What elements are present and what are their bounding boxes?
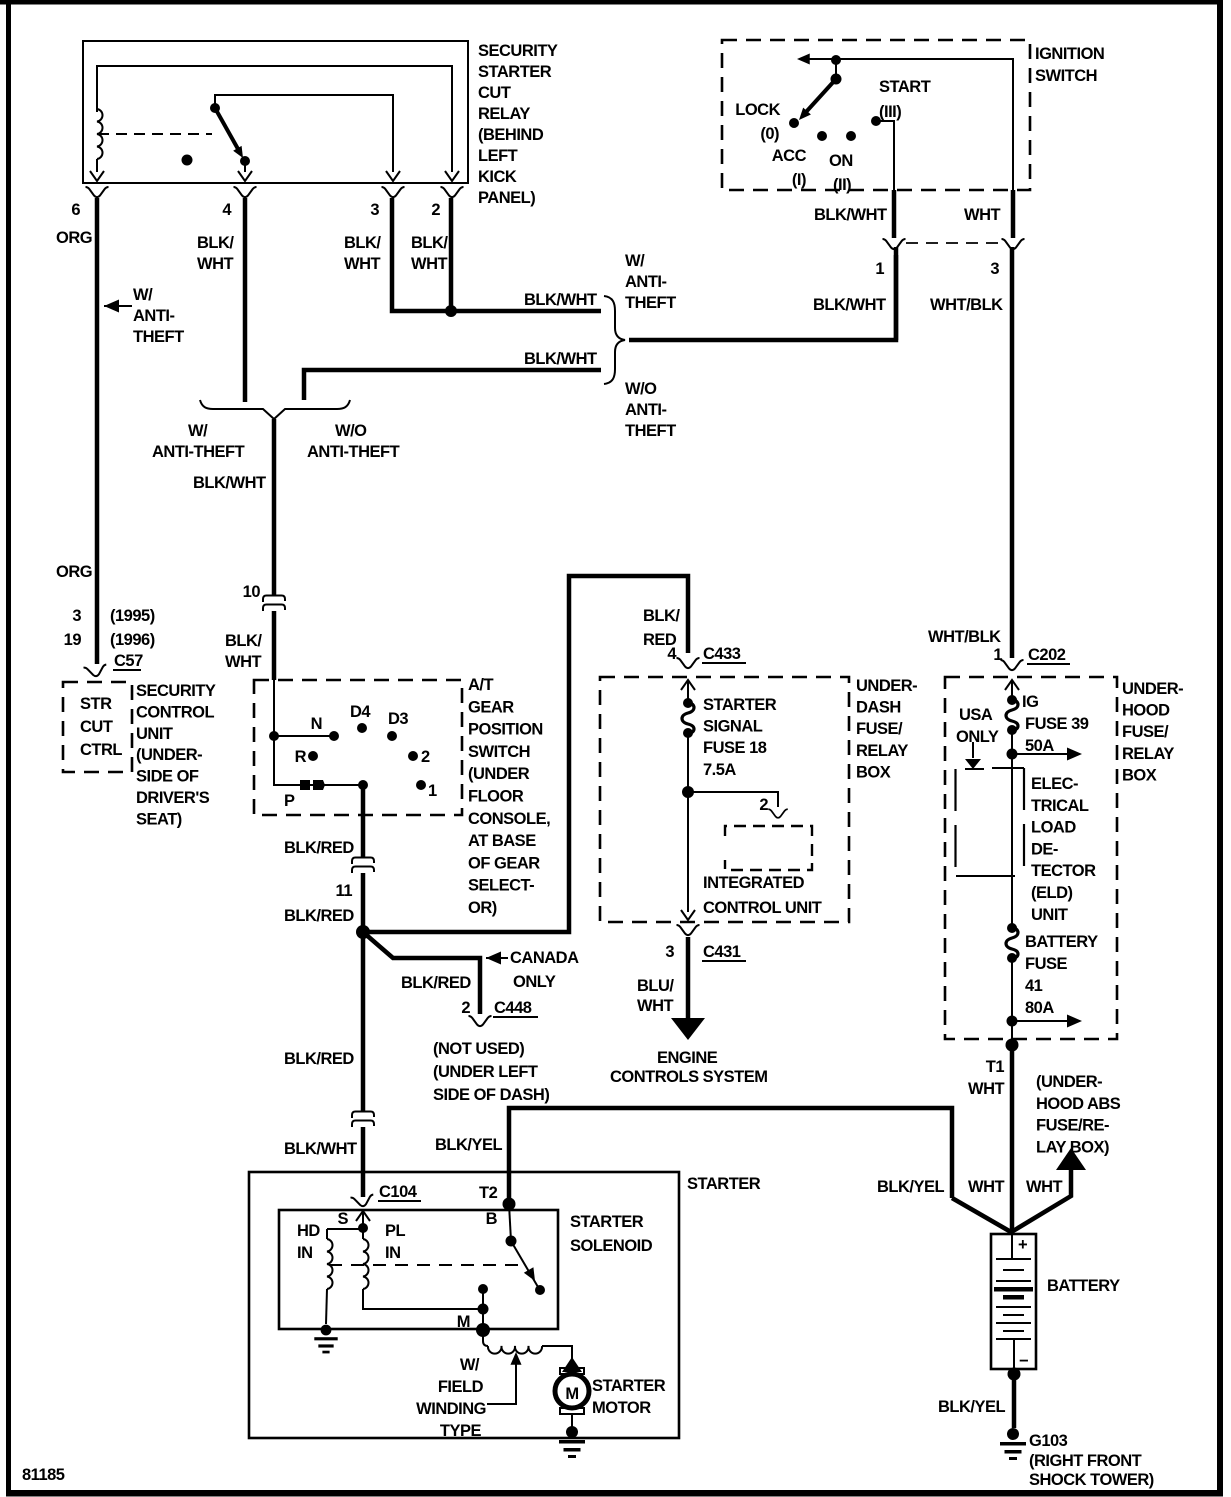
- svg-text:BLK/RED: BLK/RED: [284, 907, 354, 925]
- wire WHT T1 to battery: [1010, 1039, 1015, 1234]
- contact B dot: [506, 1236, 517, 1247]
- contact D4: [357, 723, 367, 733]
- svg-text:2: 2: [461, 999, 470, 1017]
- svg-text:BLK/WHT: BLK/WHT: [524, 291, 597, 309]
- junction dot fuse39 output: [1007, 749, 1018, 760]
- svg-text:WHT/BLK: WHT/BLK: [928, 628, 1001, 646]
- gear switch common wire: [274, 680, 363, 785]
- start output wire: [876, 121, 894, 192]
- solenoid dashed link: [329, 1264, 524, 1266]
- svg-text:G103: G103: [1029, 1432, 1068, 1450]
- svg-text:TYPE: TYPE: [440, 1422, 482, 1440]
- svg-text:(NOT USED): (NOT USED): [433, 1040, 524, 1058]
- svg-text:INTEGRATED: INTEGRATED: [703, 874, 805, 892]
- svg-text:UNDER-: UNDER-: [1122, 680, 1183, 698]
- svg-text:ACC: ACC: [772, 147, 807, 165]
- svg-text:BLK/RED: BLK/RED: [284, 839, 354, 857]
- svg-text:THEFT: THEFT: [625, 422, 676, 440]
- wire BLK/RED loop to C433: [363, 576, 688, 932]
- svg-text:BLK/: BLK/: [225, 632, 262, 650]
- svg-text:(0): (0): [760, 125, 779, 143]
- svg-text:TRICAL: TRICAL: [1031, 797, 1089, 815]
- svg-text:BLK/: BLK/: [197, 234, 234, 252]
- svg-text:C448: C448: [494, 999, 532, 1017]
- wire BLK/RED gear switch down: [361, 785, 366, 858]
- connector pin 2: [441, 187, 464, 197]
- connector pin 6: [86, 187, 109, 197]
- wire fuse41 to bottom: [1011, 958, 1013, 1039]
- svg-text:CUT: CUT: [80, 718, 113, 736]
- svg-text:D3: D3: [388, 710, 408, 728]
- svg-text:(ELD): (ELD): [1031, 884, 1073, 902]
- svg-text:ONLY: ONLY: [513, 973, 556, 991]
- svg-text:FUSE: FUSE: [1025, 955, 1068, 973]
- svg-text:WHT: WHT: [225, 653, 261, 671]
- svg-text:4: 4: [222, 201, 232, 219]
- svg-text:(1996): (1996): [110, 631, 155, 649]
- ignition switch box: [722, 40, 1030, 190]
- svg-text:ON: ON: [829, 152, 853, 170]
- wire WHT ignition below box: [1011, 190, 1016, 238]
- svg-text:(UNDER LEFT: (UNDER LEFT: [433, 1063, 538, 1081]
- wire BLK/WHT from brace to ignition pin1: [629, 255, 896, 340]
- svg-text:BLK/WHT: BLK/WHT: [193, 474, 266, 492]
- svg-text:BLK/RED: BLK/RED: [401, 974, 471, 992]
- contact ON: [846, 131, 856, 141]
- svg-text:FUSE 18: FUSE 18: [703, 739, 767, 757]
- ignition feed wire: [800, 59, 1013, 192]
- svg-text:(BEHIND: (BEHIND: [478, 126, 544, 144]
- contact START: [871, 116, 881, 126]
- svg-text:ORG: ORG: [56, 229, 92, 247]
- contact N: [329, 731, 339, 741]
- svg-text:DRIVER'S: DRIVER'S: [136, 789, 210, 807]
- svg-text:ENGINE: ENGINE: [657, 1049, 718, 1067]
- svg-text:6: 6: [71, 201, 80, 219]
- under-dash fuse relay box: [600, 677, 849, 922]
- ignition lever dot: [831, 74, 842, 85]
- svg-text:BLK/: BLK/: [411, 234, 448, 252]
- svg-text:SECURITY: SECURITY: [478, 42, 558, 60]
- connector 11: [352, 858, 374, 874]
- svg-text:THEFT: THEFT: [625, 294, 676, 312]
- svg-text:AT BASE: AT BASE: [468, 832, 536, 850]
- svg-text:7.5A: 7.5A: [703, 761, 736, 779]
- solenoid switch lever: [511, 1241, 538, 1287]
- junction dot BLK/RED: [356, 925, 370, 939]
- wire fuse39 to junction: [1011, 730, 1013, 767]
- ground G103: [1000, 1428, 1026, 1460]
- wire BLK/WHT to gear switch: [272, 611, 277, 680]
- svg-text:W/O: W/O: [335, 422, 367, 440]
- fuse 39 IG: [1006, 695, 1018, 735]
- svg-text:CONTROL UNIT: CONTROL UNIT: [703, 899, 822, 917]
- connector pin 3: [382, 187, 405, 197]
- usa only arrow: [972, 742, 974, 758]
- svg-text:41: 41: [1025, 977, 1043, 995]
- under-hood fuse relay box: [945, 677, 1117, 1039]
- svg-text:C433: C433: [703, 645, 741, 663]
- svg-text:B: B: [486, 1210, 498, 1228]
- svg-text:BLK/WHT: BLK/WHT: [813, 296, 886, 314]
- svg-text:SIGNAL: SIGNAL: [703, 718, 763, 736]
- svg-text:WINDING: WINDING: [416, 1400, 486, 1418]
- svg-text:FUSE/: FUSE/: [856, 720, 903, 738]
- arrow w/anti-theft: [104, 300, 119, 313]
- contact S dot: [358, 1223, 368, 1233]
- svg-text:STARTER: STARTER: [703, 696, 777, 714]
- svg-text:UNDER-: UNDER-: [856, 677, 917, 695]
- svg-text:BOX: BOX: [1122, 766, 1157, 784]
- svg-text:BLK/YEL: BLK/YEL: [435, 1136, 503, 1154]
- svg-text:81185: 81185: [22, 1466, 65, 1484]
- svg-text:3: 3: [665, 943, 674, 961]
- arrow feed right from fuse39: [1012, 753, 1068, 755]
- starter solenoid box: [279, 1210, 558, 1329]
- contact ACC: [817, 131, 827, 141]
- wire BLK/RED down to starter: [361, 932, 366, 1112]
- svg-text:GEAR: GEAR: [468, 698, 514, 716]
- svg-text:SIDE OF DASH): SIDE OF DASH): [433, 1086, 549, 1104]
- svg-text:STARTER: STARTER: [592, 1377, 666, 1395]
- svg-text:CONTROLS SYSTEM: CONTROLS SYSTEM: [610, 1068, 768, 1086]
- fuse 18 starter signal: [682, 698, 694, 738]
- svg-text:SECURITY: SECURITY: [136, 682, 216, 700]
- svg-text:P: P: [284, 792, 295, 810]
- svg-text:50A: 50A: [1025, 737, 1054, 755]
- svg-text:W/: W/: [625, 252, 645, 270]
- svg-text:−: −: [1019, 1352, 1028, 1370]
- svg-text:(UNDER-: (UNDER-: [136, 746, 202, 764]
- contact fixed dot: [478, 1284, 488, 1294]
- svg-text:CANADA: CANADA: [510, 949, 579, 967]
- wire BLK/RED below connector 11: [361, 873, 366, 932]
- svg-text:10: 10: [243, 583, 261, 601]
- svg-text:WHT: WHT: [964, 206, 1000, 224]
- relay pin 3 arrow: [386, 171, 400, 181]
- svg-text:BLK/WHT: BLK/WHT: [814, 206, 887, 224]
- svg-text:BOX: BOX: [856, 763, 891, 781]
- svg-text:IG: IG: [1022, 693, 1038, 711]
- wire BLK/WHT pin2 down: [449, 198, 454, 311]
- svg-text:ANTI-THEFT: ANTI-THEFT: [307, 443, 400, 461]
- relay internal wire pin2 to coil top: [97, 66, 452, 172]
- svg-text:CONTROL: CONTROL: [136, 703, 214, 721]
- svg-text:DE-: DE-: [1031, 840, 1058, 858]
- svg-text:(UNDER-: (UNDER-: [1036, 1073, 1102, 1091]
- svg-text:WHT: WHT: [637, 997, 673, 1015]
- svg-text:WHT: WHT: [411, 255, 447, 273]
- connector ignition 3: [1002, 239, 1025, 249]
- wire WHT/BLK ignition pin3 down to C202: [1010, 247, 1015, 658]
- svg-text:STARTER: STARTER: [478, 63, 552, 81]
- svg-text:C104: C104: [379, 1183, 418, 1201]
- svg-text:80A: 80A: [1025, 999, 1054, 1017]
- wire BLK/WHT pin3 down-right: [392, 198, 601, 311]
- ignition pivot dot: [831, 55, 841, 65]
- svg-text:SWITCH: SWITCH: [468, 743, 530, 761]
- merge bracket anti-theft: [200, 400, 350, 419]
- wire BLK/YEL T2 into solenoid: [509, 1204, 511, 1241]
- relay switch pivot dot: [210, 103, 220, 113]
- connector ignition 1: [883, 239, 906, 249]
- svg-text:WHT: WHT: [344, 255, 380, 273]
- svg-text:(RIGHT FRONT: (RIGHT FRONT: [1029, 1452, 1142, 1470]
- wire PL coil to M: [363, 1289, 483, 1309]
- svg-text:T2: T2: [479, 1184, 498, 1202]
- svg-text:(III): (III): [879, 103, 901, 121]
- wire S to HD coil: [327, 1228, 363, 1230]
- svg-text:3: 3: [72, 607, 81, 625]
- svg-text:THEFT: THEFT: [133, 328, 184, 346]
- svg-text:S: S: [337, 1210, 348, 1228]
- svg-text:RELAY: RELAY: [478, 105, 530, 123]
- engine controls arrow: [671, 1018, 705, 1040]
- relay coil: [97, 109, 103, 159]
- svg-text:OR): OR): [468, 899, 497, 917]
- svg-text:UNIT: UNIT: [136, 725, 173, 743]
- wire to ICU pin 2: [688, 792, 778, 807]
- a/t gear position switch box: [254, 680, 462, 815]
- svg-text:STARTER: STARTER: [570, 1213, 644, 1231]
- wire canada only branch: [363, 932, 480, 1014]
- svg-text:A/T: A/T: [468, 676, 494, 694]
- svg-text:WHT: WHT: [1026, 1178, 1062, 1196]
- wire diagonal to battery plus: [952, 1198, 1011, 1232]
- junction dot fuse41 output: [1007, 1016, 1018, 1027]
- svg-text:CUT: CUT: [478, 84, 511, 102]
- svg-text:4: 4: [667, 645, 677, 663]
- wire BLK/WHT merged down: [272, 419, 277, 596]
- contact 2: [408, 751, 418, 761]
- fuse 41 battery: [1006, 923, 1018, 963]
- ground starter motor: [559, 1426, 585, 1458]
- svg-text:19: 19: [64, 631, 82, 649]
- relay coil dashed actuator link: [98, 133, 212, 135]
- relay switch contact dot: [240, 156, 250, 166]
- svg-text:(UNDER: (UNDER: [468, 765, 530, 783]
- svg-text:FUSE/RE-: FUSE/RE-: [1036, 1117, 1109, 1135]
- abs feed arrow: [1056, 1148, 1086, 1170]
- ground HD coil: [314, 1325, 337, 1354]
- svg-text:BLK/WHT: BLK/WHT: [284, 1140, 357, 1158]
- svg-text:CONSOLE,: CONSOLE,: [468, 810, 550, 828]
- brace anti-theft split: [604, 296, 625, 384]
- svg-text:WHT: WHT: [968, 1178, 1004, 1196]
- svg-text:M: M: [565, 1385, 578, 1403]
- dashed link between connectors: [906, 242, 1001, 244]
- wire BLK/WHT pin4 down: [243, 198, 248, 402]
- battery: [991, 1234, 1036, 1369]
- svg-text:+: +: [1018, 1236, 1027, 1254]
- svg-text:3: 3: [990, 260, 999, 278]
- junction dot T1: [1006, 1039, 1019, 1052]
- PL pull-in coil: [362, 1228, 364, 1239]
- svg-text:R: R: [295, 748, 307, 766]
- contact D3: [387, 731, 397, 741]
- svg-text:ORG: ORG: [56, 563, 92, 581]
- svg-text:HOOD ABS: HOOD ABS: [1036, 1095, 1121, 1113]
- svg-text:3: 3: [370, 201, 379, 219]
- svg-text:T1: T1: [986, 1058, 1005, 1076]
- junction dot pin2/pin3 wires: [445, 305, 457, 317]
- svg-text:PL: PL: [385, 1222, 406, 1240]
- wire battery feed to starter B horizontal: [509, 1108, 952, 1204]
- svg-text:BLK/WHT: BLK/WHT: [524, 350, 597, 368]
- svg-text:SEAT): SEAT): [136, 810, 182, 828]
- ignition lever: [806, 79, 836, 112]
- svg-text:SHOCK TOWER): SHOCK TOWER): [1029, 1471, 1154, 1489]
- ignition battery feed arrow: [797, 53, 810, 64]
- relay internal dot: [182, 155, 193, 166]
- svg-text:HOOD: HOOD: [1122, 702, 1170, 720]
- svg-text:W/: W/: [133, 286, 153, 304]
- svg-text:(1995): (1995): [110, 607, 155, 625]
- svg-text:START: START: [879, 78, 931, 96]
- svg-text:SOLENOID: SOLENOID: [570, 1237, 653, 1255]
- junction dot T2: [503, 1198, 516, 1211]
- svg-text:ANTI-: ANTI-: [625, 401, 667, 419]
- HD hold-in coil: [327, 1239, 333, 1289]
- contact P wiper marks: [300, 780, 310, 790]
- svg-text:IN: IN: [385, 1244, 401, 1262]
- svg-text:BLU/: BLU/: [637, 977, 674, 995]
- svg-text:ANTI-THEFT: ANTI-THEFT: [152, 443, 245, 461]
- ELD unit box: [956, 768, 1024, 876]
- svg-text:1: 1: [875, 260, 884, 278]
- svg-text:N: N: [311, 715, 322, 733]
- svg-text:WHT: WHT: [197, 255, 233, 273]
- svg-text:ANTI-: ANTI-: [133, 307, 175, 325]
- svg-text:STARTER: STARTER: [687, 1175, 761, 1193]
- svg-text:OF GEAR: OF GEAR: [468, 854, 540, 872]
- svg-text:1: 1: [993, 646, 1002, 664]
- contact common dot: [269, 731, 279, 741]
- svg-text:C202: C202: [1028, 646, 1066, 664]
- arrow into under-dash box: [681, 680, 695, 690]
- svg-text:ONLY: ONLY: [956, 728, 999, 746]
- wire BLK/WHT w/o anti-theft horizontal: [304, 370, 601, 400]
- svg-text:FIELD: FIELD: [438, 1378, 484, 1396]
- svg-text:C431: C431: [703, 943, 741, 961]
- svg-text:2: 2: [759, 796, 768, 814]
- svg-text:SWITCH: SWITCH: [1035, 67, 1097, 85]
- svg-text:LOAD: LOAD: [1031, 819, 1076, 837]
- svg-text:KICK: KICK: [478, 168, 517, 186]
- integrated control unit box: [725, 826, 812, 870]
- wire winding to motor: [542, 1346, 572, 1360]
- svg-text:STR: STR: [80, 695, 112, 713]
- wire motor to ground: [571, 1414, 573, 1428]
- wire ORG pin6 down to C57: [95, 198, 100, 664]
- svg-text:2: 2: [421, 748, 430, 766]
- wire to N contact: [274, 735, 334, 737]
- wire BLK/WHT ignition pin1 down to brace junction: [894, 247, 899, 340]
- connector C57: [83, 664, 107, 677]
- svg-text:W/: W/: [460, 1356, 480, 1374]
- relay pin 6 arrow: [90, 171, 104, 181]
- svg-text:2: 2: [431, 201, 440, 219]
- relay switch lever: [215, 108, 238, 149]
- wire BLU/WHT to engine controls: [686, 937, 691, 1022]
- svg-text:BLK/YEL: BLK/YEL: [877, 1178, 945, 1196]
- svg-text:HD: HD: [297, 1222, 320, 1240]
- svg-text:FUSE 39: FUSE 39: [1025, 715, 1089, 733]
- junction dot battery negative: [1008, 1368, 1021, 1381]
- relay pin 4 arrow: [238, 171, 252, 181]
- svg-text:D4: D4: [350, 703, 371, 721]
- svg-text:USA: USA: [959, 706, 993, 724]
- svg-text:WHT/BLK: WHT/BLK: [930, 296, 1003, 314]
- wire BLK/WHT ignition below box: [892, 190, 897, 238]
- wire abs feed diagonal: [1013, 1164, 1071, 1231]
- arrow into under-hood box: [1005, 680, 1019, 690]
- svg-text:RELAY: RELAY: [856, 742, 908, 760]
- wire BLK/YEL battery to ground: [1012, 1369, 1017, 1428]
- connector pin 4: [234, 187, 257, 197]
- contact M dot: [476, 1323, 490, 1337]
- svg-text:(I): (I): [792, 171, 806, 189]
- svg-text:BLK/: BLK/: [344, 234, 381, 252]
- contact 1: [416, 780, 426, 790]
- svg-text:BLK/RED: BLK/RED: [284, 1050, 354, 1068]
- wire through ELD: [1011, 767, 1013, 928]
- svg-text:C57: C57: [114, 652, 143, 670]
- inline connector starter harness: [352, 1112, 374, 1128]
- wire BLK/WHT to C104: [361, 1127, 366, 1197]
- svg-text:ELEC-: ELEC-: [1031, 775, 1078, 793]
- svg-text:RELAY: RELAY: [1122, 745, 1174, 763]
- svg-text:LEFT: LEFT: [478, 147, 518, 165]
- svg-text:W/: W/: [188, 422, 208, 440]
- output contact dot: [358, 780, 368, 790]
- svg-text:11: 11: [336, 882, 353, 900]
- field winding tap arrow: [510, 1352, 521, 1365]
- svg-text:SELECT-: SELECT-: [468, 877, 534, 895]
- relay internal wire pin3 to switch pivot: [215, 95, 393, 172]
- contact R: [308, 751, 318, 761]
- svg-text:MOTOR: MOTOR: [592, 1399, 651, 1417]
- arrow out of under-dash box: [681, 910, 695, 920]
- svg-text:LOCK: LOCK: [735, 101, 780, 119]
- starter motor: [562, 1357, 582, 1372]
- svg-text:(II): (II): [833, 176, 851, 194]
- arrow into solenoid: [356, 1211, 370, 1221]
- svg-text:IGNITION: IGNITION: [1035, 45, 1104, 63]
- canada only arrow: [486, 952, 501, 965]
- svg-text:POSITION: POSITION: [468, 721, 543, 739]
- connector C431: [677, 925, 700, 935]
- svg-text:BATTERY: BATTERY: [1025, 933, 1098, 951]
- security control unit box: [63, 682, 132, 772]
- svg-text:ANTI-: ANTI-: [625, 273, 667, 291]
- svg-text:M: M: [457, 1313, 470, 1331]
- svg-text:CTRL: CTRL: [80, 741, 122, 759]
- svg-text:BATTERY: BATTERY: [1047, 1277, 1120, 1295]
- svg-text:IN: IN: [297, 1244, 313, 1262]
- arrow feed right from fuse41: [1012, 1020, 1068, 1022]
- svg-text:FLOOR: FLOOR: [468, 788, 524, 806]
- svg-text:SIDE OF: SIDE OF: [136, 768, 199, 786]
- relay security starter cut relay box: [83, 41, 468, 183]
- svg-text:TECTOR: TECTOR: [1031, 862, 1096, 880]
- svg-text:W/O: W/O: [625, 380, 657, 398]
- starter box: [249, 1172, 679, 1438]
- svg-text:UNIT: UNIT: [1031, 906, 1068, 924]
- svg-text:DASH: DASH: [856, 699, 901, 717]
- svg-text:1: 1: [428, 782, 437, 800]
- svg-text:WHT: WHT: [968, 1080, 1004, 1098]
